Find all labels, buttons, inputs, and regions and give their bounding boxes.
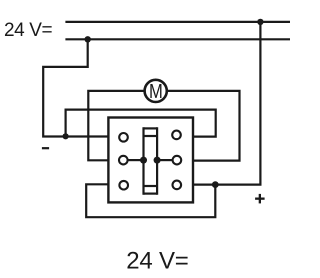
- svg-text:M: M: [149, 79, 163, 102]
- svg-text:24 V=: 24 V=: [126, 247, 188, 274]
- svg-text:24 V=: 24 V=: [4, 20, 52, 41]
